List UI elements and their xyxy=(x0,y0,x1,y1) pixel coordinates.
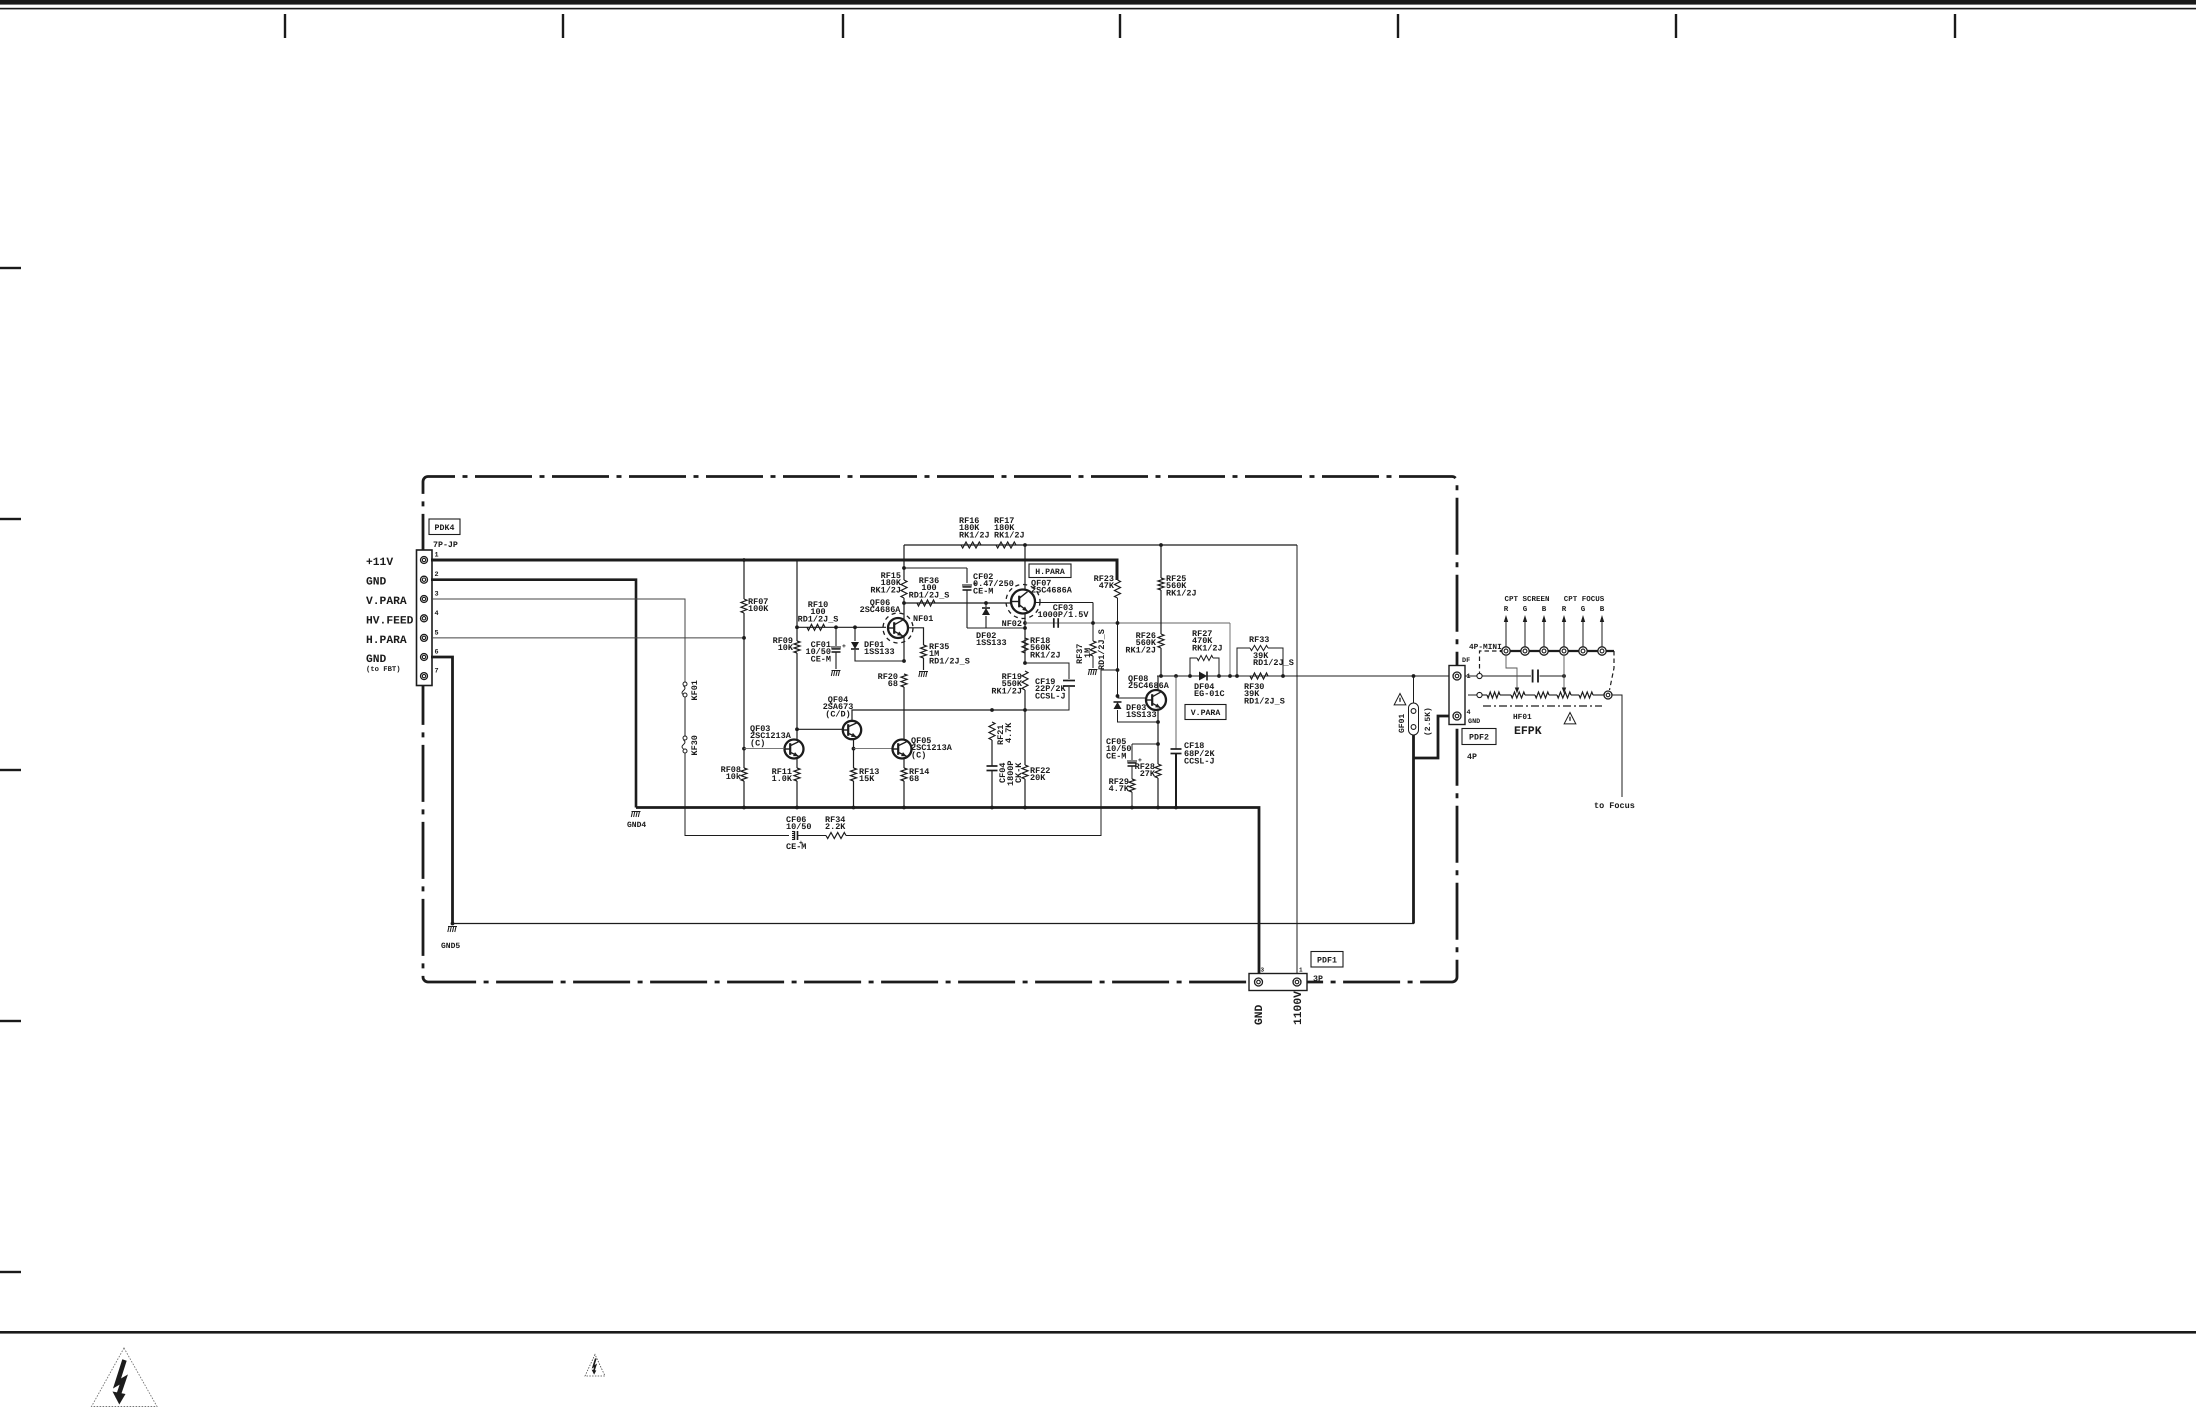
label GND (PDF2) xyxy=(1468,718,1480,726)
net label 1100V xyxy=(1293,991,1305,1025)
wire RF09 to QF03 collector xyxy=(796,653,798,741)
svg-text:10K: 10K xyxy=(778,643,794,653)
transistor QF07 xyxy=(1006,585,1040,619)
wire 1100V drop xyxy=(1296,545,1298,977)
wire screen row right xyxy=(1540,675,1565,677)
resistor HF01 section 3 xyxy=(1579,692,1593,698)
junction RF26 / row xyxy=(1159,674,1163,678)
svg-text:4.7K: 4.7K xyxy=(1004,722,1014,743)
label RF30 xyxy=(1244,682,1285,706)
left registration tick 1 xyxy=(0,267,21,269)
junction QF03 collector node xyxy=(795,727,799,731)
junction GND5 tee xyxy=(451,922,455,926)
net label box V.PARA xyxy=(1185,705,1226,720)
wire RF20 to QF05 xyxy=(903,687,905,740)
bottom rule xyxy=(0,1331,2196,1334)
junction RF28 / bus xyxy=(1156,806,1160,810)
resistor RF23 xyxy=(1115,580,1121,598)
junction CF04 / bus xyxy=(990,806,994,810)
wire GF01 upper lead xyxy=(1413,676,1415,703)
svg-text:RD1/2J_S: RD1/2J_S xyxy=(909,590,950,600)
svg-text:G: G xyxy=(1523,605,1528,614)
svg-text:25C4686A: 25C4686A xyxy=(1128,681,1170,691)
net label H.PARA xyxy=(366,635,407,647)
svg-text:RK1/2J: RK1/2J xyxy=(1030,650,1061,660)
wire NF02 lower link xyxy=(967,627,1025,629)
label QF07 xyxy=(1031,579,1073,596)
transistor QF04 xyxy=(843,721,861,739)
connector label box PDK4 xyxy=(429,519,460,535)
diode DF01 xyxy=(851,642,859,649)
wire QF03 emitter xyxy=(796,758,798,769)
junction DF01 / emitter column xyxy=(902,659,906,663)
wire CPT R drop xyxy=(1506,655,1517,690)
wire QF07 out drop xyxy=(1092,603,1094,624)
left registration tick 5 xyxy=(0,1271,21,1273)
svg-text:20K: 20K xyxy=(1030,773,1046,783)
wire RF34 to QF08 base column xyxy=(846,670,1118,836)
label CPT SCREEN xyxy=(1504,595,1549,604)
connector label box PDF2 xyxy=(1462,729,1496,745)
wire HF01 row 2 xyxy=(1500,694,1511,696)
junction RF22 / bus xyxy=(1023,806,1027,810)
transistor QF08 xyxy=(1146,690,1166,710)
svg-text:2.2K: 2.2K xyxy=(825,822,846,832)
svg-text:RD1/2J_S: RD1/2J_S xyxy=(1244,696,1285,706)
wire KF30 to CF06 row xyxy=(685,753,789,836)
wire NF02 drop to V.PARA row xyxy=(1229,623,1231,676)
svg-text:CE-M: CE-M xyxy=(973,586,993,596)
wire QF08 emitter xyxy=(1157,709,1159,765)
junction RF11 / bus xyxy=(795,806,799,810)
wire CF01 branch xyxy=(835,627,837,646)
resistor RF35 xyxy=(921,645,927,658)
wire CF06 to RF34 xyxy=(798,835,827,837)
top registration tick 4 xyxy=(1119,14,1121,38)
wire RF22 column xyxy=(1024,710,1026,765)
svg-text:EFPK: EFPK xyxy=(1514,725,1542,738)
CPT lead arrow R1564 xyxy=(1562,606,1567,647)
svg-text:GND4: GND4 xyxy=(627,821,646,830)
label RF20 xyxy=(878,672,898,689)
resistor RF07 xyxy=(741,599,747,613)
CPT lead arrow B1602 xyxy=(1600,606,1605,647)
pot tap arrow focus xyxy=(1562,688,1566,694)
label RF37 xyxy=(1075,644,1093,664)
junction QF03 base tap xyxy=(742,747,746,751)
svg-text:10/50: 10/50 xyxy=(786,822,812,832)
resistor RF21 xyxy=(989,722,995,740)
svg-text:4: 4 xyxy=(1467,709,1471,717)
label QF03 xyxy=(750,724,792,748)
left registration tick 4 xyxy=(0,1020,21,1022)
svg-text:B: B xyxy=(1542,606,1547,614)
resistor HF01 section 2 xyxy=(1535,692,1549,698)
wire NF02 row xyxy=(1025,622,1230,624)
resistor RF27 bypass loop xyxy=(1190,655,1219,676)
junction RF23 cross xyxy=(1116,621,1120,625)
svg-text:1000P/1.5V: 1000P/1.5V xyxy=(1037,610,1089,620)
wire CF02 lower lead xyxy=(966,590,968,628)
junction DF02 top xyxy=(984,601,988,605)
svg-text:+11V: +11V xyxy=(366,557,393,569)
svg-text:1SS133: 1SS133 xyxy=(976,638,1007,648)
svg-text:1SS133: 1SS133 xyxy=(1126,710,1157,720)
wire RF13 to bus xyxy=(853,781,855,808)
junction NF02 xyxy=(1023,621,1027,625)
junction CF05 tap xyxy=(1156,742,1160,746)
top registration tick 7 xyxy=(1954,14,1956,38)
svg-text:RK1/2J: RK1/2J xyxy=(1166,588,1197,598)
top registration tick 2 xyxy=(562,14,564,38)
label RF07 xyxy=(748,597,769,614)
svg-text:V.PARA: V.PARA xyxy=(366,596,407,608)
CPT lead arrow G1583 xyxy=(1581,605,1586,647)
svg-text:RD1/2J_S: RD1/2J_S xyxy=(1253,658,1294,668)
wire RF19 lower xyxy=(1024,690,1026,710)
wire GND5 horizontal run xyxy=(453,923,1415,925)
wire CF02 top run xyxy=(904,567,967,569)
svg-text:68: 68 xyxy=(909,774,919,784)
wire RF11 to bus xyxy=(796,781,798,808)
label CF04 xyxy=(998,760,1024,786)
capacitor CF02 xyxy=(963,581,978,590)
label CF01 xyxy=(805,640,831,664)
svg-text:(C/D): (C/D) xyxy=(825,709,851,719)
label RF08 xyxy=(721,765,741,782)
label QF04 xyxy=(823,695,854,719)
small lightning-flash warning triangle xyxy=(585,1355,605,1377)
wire HF01 row 3 xyxy=(1525,694,1535,696)
wire QF03 base xyxy=(744,748,785,750)
svg-text:4.7K: 4.7K xyxy=(1109,784,1130,794)
wire RF28 to bus xyxy=(1157,778,1159,808)
svg-text:RD1/2J_S: RD1/2J_S xyxy=(929,656,970,666)
label CF19 xyxy=(1035,677,1067,701)
CPT lead arrow B1544 xyxy=(1542,606,1547,647)
svg-text:KF30: KF30 xyxy=(690,735,700,755)
wire GND pin2 to GND4 xyxy=(431,580,636,808)
label RF26 xyxy=(1125,631,1157,655)
connector PDF2 body xyxy=(1449,666,1465,725)
wire RF25 column xyxy=(1160,545,1162,578)
wire RF37 to ground xyxy=(1092,656,1094,668)
svg-text:3: 3 xyxy=(435,591,439,599)
svg-text:RK1/2J: RK1/2J xyxy=(959,530,990,540)
capacitor CF18 xyxy=(1171,749,1182,754)
diode DF02 xyxy=(982,608,990,615)
label RF09 xyxy=(773,636,794,653)
ground under CF01 xyxy=(831,671,840,677)
svg-text:HF01: HF01 xyxy=(1513,713,1532,722)
label RF14 xyxy=(909,767,929,784)
wire QF04 emitter xyxy=(853,739,855,768)
svg-text:V.PARA: V.PARA xyxy=(1191,709,1221,718)
junction NF02 drop xyxy=(1228,674,1232,678)
svg-text:RK1/2J: RK1/2J xyxy=(870,585,901,595)
label 3P xyxy=(1313,975,1323,984)
resistor RF20 xyxy=(901,674,907,687)
label CPT FOCUS xyxy=(1564,595,1605,604)
svg-text:GND5: GND5 xyxy=(441,942,460,951)
wire QF06 emitter xyxy=(903,637,905,662)
resistor RF33 bypass loop xyxy=(1237,645,1283,676)
resistor RF10 xyxy=(807,624,825,630)
resistor RF36 xyxy=(917,600,935,606)
svg-text:6: 6 xyxy=(435,649,439,657)
svg-text:RK1/2J: RK1/2J xyxy=(994,530,1025,540)
4P-MINI pin strip xyxy=(1500,647,1614,655)
resistor RF16 xyxy=(961,542,981,548)
svg-text:RK1/2J: RK1/2J xyxy=(1125,645,1156,655)
svg-text:1SS133: 1SS133 xyxy=(864,647,895,657)
wire QF05 emitter xyxy=(903,759,905,769)
resistor RF19 xyxy=(1022,671,1028,690)
svg-text:4: 4 xyxy=(435,610,439,618)
wire RF37 upper lead xyxy=(1092,623,1094,641)
wire jumper link KF01-KF30 xyxy=(684,697,686,736)
svg-text:3: 3 xyxy=(1261,967,1265,974)
wire RF09 column xyxy=(796,560,798,641)
wire QF08 collector xyxy=(1157,676,1159,691)
junction top rail / QF07 collector xyxy=(1023,543,1027,547)
transistor QF06 xyxy=(883,613,913,643)
label RF35 xyxy=(929,642,970,666)
wire HF01 row xyxy=(1482,694,1487,696)
svg-text:NF01: NF01 xyxy=(913,614,933,624)
label GND4 xyxy=(627,821,646,830)
node focus output xyxy=(1604,691,1612,699)
label RF33 value xyxy=(1253,651,1294,668)
svg-text:15K: 15K xyxy=(859,774,875,784)
junction CF18 top xyxy=(1174,674,1178,678)
ground GND5 xyxy=(448,927,457,933)
capacitor CF01 xyxy=(832,643,847,652)
net label HV.FEED xyxy=(366,615,414,627)
junction RF08 / ground bus xyxy=(742,806,746,810)
svg-text:G: G xyxy=(1581,605,1586,614)
resistor RF25 xyxy=(1158,578,1164,590)
label CF05 xyxy=(1106,737,1132,761)
junction RF36 node xyxy=(902,601,906,605)
svg-text:PDF1: PDF1 xyxy=(1317,956,1337,965)
net label box H.PARA xyxy=(1029,564,1071,578)
junction top rail / RF25 xyxy=(1159,543,1163,547)
wire RF14 to bus xyxy=(903,781,905,808)
svg-text:R: R xyxy=(1504,606,1509,614)
wire ground bus xyxy=(636,808,1259,978)
label RF16 xyxy=(959,516,990,540)
diode DF03 xyxy=(1114,702,1122,709)
label RF18 xyxy=(1030,636,1061,660)
ground under RF35 xyxy=(919,672,928,678)
top black bar xyxy=(0,0,2196,5)
svg-text:CK-K: CK-K xyxy=(1014,762,1024,783)
label RF33 xyxy=(1249,635,1269,645)
label CF06 xyxy=(786,815,812,832)
svg-text:5: 5 xyxy=(435,629,439,637)
label DF xyxy=(1462,657,1470,665)
svg-text:7: 7 xyxy=(435,668,439,676)
svg-text:CE-M: CE-M xyxy=(786,842,806,852)
junction RF23 / RF34 link xyxy=(1116,668,1120,672)
junction focus R column xyxy=(1562,674,1566,678)
large lightning-flash warning triangle xyxy=(92,1348,158,1407)
ground GND4 xyxy=(631,812,640,818)
label CF18 xyxy=(1184,741,1216,767)
label RF22 xyxy=(1030,766,1050,783)
resistor RF13 xyxy=(851,768,857,781)
junction RF33 right xyxy=(1281,674,1285,678)
svg-text:H.PARA: H.PARA xyxy=(366,635,407,647)
svg-text:EG-01C: EG-01C xyxy=(1194,689,1225,699)
net label +11V xyxy=(366,557,393,569)
svg-text:+: + xyxy=(842,643,846,650)
wire HF01 row 5 xyxy=(1571,694,1579,696)
svg-text:(to FBT): (to FBT) xyxy=(366,665,401,674)
junction CF01 top xyxy=(834,625,838,629)
junction RF27 right xyxy=(1217,674,1221,678)
label RF36 xyxy=(909,576,950,600)
junction RF10 takeoff xyxy=(795,625,799,629)
capacitor CF04 xyxy=(987,766,998,771)
label 7P-JP xyxy=(433,541,458,550)
4P-MINI dashed outline xyxy=(1480,651,1615,706)
junction RF14 / bus xyxy=(902,806,906,810)
transistor QF03 xyxy=(785,740,804,759)
label HF01 xyxy=(1513,713,1532,722)
wire DF01 branch xyxy=(854,627,856,641)
resistor RF11 xyxy=(794,768,800,781)
svg-text:R: R xyxy=(1562,606,1567,614)
wire QF07 collector xyxy=(1024,545,1026,589)
resistor RF29 xyxy=(1129,779,1135,792)
junction RF13 / bus xyxy=(852,806,856,810)
potentiometer HF01 screen section xyxy=(1511,692,1525,698)
svg-text:GND: GND xyxy=(366,654,387,666)
connector PDF1 body xyxy=(1249,974,1307,991)
svg-text:RF33: RF33 xyxy=(1249,635,1269,645)
svg-text:NF02: NF02 xyxy=(1002,619,1022,629)
svg-text:2SC4686A: 2SC4686A xyxy=(1031,586,1073,596)
svg-text:1: 1 xyxy=(1467,673,1471,681)
wire QF07 out right xyxy=(1035,602,1093,604)
label (to FBT) xyxy=(366,665,401,674)
wire GND pin6 to GND5 xyxy=(431,657,453,924)
label DF03 xyxy=(1126,703,1157,720)
label GF01 xyxy=(1398,714,1407,733)
label 4P-MINI xyxy=(1469,643,1502,652)
svg-text:4P: 4P xyxy=(1467,753,1477,762)
wire QF04 base row xyxy=(797,728,843,730)
svg-text:(C): (C) xyxy=(750,738,765,748)
wire to Focus xyxy=(1612,695,1622,797)
label RF19 xyxy=(991,672,1023,696)
svg-text:1100V: 1100V xyxy=(1293,991,1305,1025)
svg-text:CPT FOCUS: CPT FOCUS xyxy=(1564,595,1605,604)
jumper link KF30 xyxy=(682,735,700,755)
junction DF01 top xyxy=(853,625,857,629)
ground under RF37 xyxy=(1088,670,1097,676)
junction +11V / RF07 xyxy=(742,558,746,562)
junction RF21 top xyxy=(990,708,994,712)
svg-text:GND: GND xyxy=(1254,1004,1266,1025)
warning triangle in EFPK xyxy=(1564,713,1576,724)
svg-text:CPT SCREEN: CPT SCREEN xyxy=(1504,595,1549,604)
svg-text:68: 68 xyxy=(888,679,898,689)
svg-text:(C): (C) xyxy=(911,750,926,760)
label CF02 xyxy=(973,572,1014,596)
wire HF01 row 6 xyxy=(1593,694,1604,696)
svg-text:CE-M: CE-M xyxy=(811,654,831,664)
label QF08 xyxy=(1128,674,1170,691)
label RF27 xyxy=(1192,629,1223,653)
transistor QF05 xyxy=(893,740,912,759)
junction CF18 / bus xyxy=(1174,806,1178,810)
svg-text:GND: GND xyxy=(1468,718,1480,726)
wire CF05 branch top xyxy=(1132,743,1158,745)
wire QF04 collector row xyxy=(852,710,1025,721)
wire CF18 lower lead xyxy=(1175,754,1177,808)
wire QF07 emitter xyxy=(1024,614,1026,638)
resistor RF30 xyxy=(1250,673,1268,679)
wire PDF2 pin4 return xyxy=(1414,716,1450,758)
junction CF02 top tap xyxy=(902,566,906,570)
wire CF01 to ground xyxy=(835,652,837,669)
label RF23 xyxy=(1094,574,1115,591)
resistor RF14 xyxy=(901,768,907,781)
wire RF07 to RF08 xyxy=(743,613,745,768)
capacitor screen coupling xyxy=(1533,670,1538,683)
label QF06 xyxy=(860,598,902,615)
wire NF01 stub to RF35 xyxy=(909,628,924,645)
label RF37 RD1/2J_S xyxy=(1097,629,1107,670)
svg-text:1: 1 xyxy=(435,552,439,560)
wire RF21 to CF04 xyxy=(991,740,993,766)
net label GND (PDF1) xyxy=(1254,1004,1266,1025)
left registration tick 2 xyxy=(0,518,21,520)
svg-text:DF: DF xyxy=(1462,657,1470,665)
CPT lead arrow G1525 xyxy=(1523,605,1528,647)
label DF01 xyxy=(864,640,895,657)
junction RF27 left xyxy=(1188,674,1192,678)
svg-text:2SC4686A: 2SC4686A xyxy=(860,605,902,615)
junction RF19 bottom xyxy=(1023,708,1027,712)
svg-text:H.PARA: H.PARA xyxy=(1035,568,1065,577)
wire RF23 lower xyxy=(1117,598,1119,696)
top rule xyxy=(0,8,2196,10)
node HF01 row stub xyxy=(1477,692,1482,697)
wire RF07 column xyxy=(743,560,745,599)
dash-dot circuit-module border box xyxy=(423,477,1457,983)
label RF21 xyxy=(996,722,1014,745)
diode DF04 xyxy=(1199,672,1207,681)
wire CF04 to bus xyxy=(991,771,993,808)
junction H.PARA tee xyxy=(742,636,746,640)
capacitor CF03 xyxy=(1054,618,1058,628)
wire RF10 row xyxy=(797,626,886,628)
junction CF19 top xyxy=(1023,661,1027,665)
wire GF01 to GND5 run xyxy=(1412,735,1415,924)
wire RF22 to bus xyxy=(1024,779,1026,808)
label RF11 xyxy=(772,767,793,784)
wire DF03 return xyxy=(1118,710,1159,722)
node PDF2 pin1 stub xyxy=(1477,673,1482,678)
resistor RF37 xyxy=(1090,641,1096,656)
resistor RF17 xyxy=(996,542,1016,548)
svg-text:(2.5K): (2.5K) xyxy=(1424,707,1433,736)
svg-text:1M: 1M xyxy=(1083,648,1093,658)
